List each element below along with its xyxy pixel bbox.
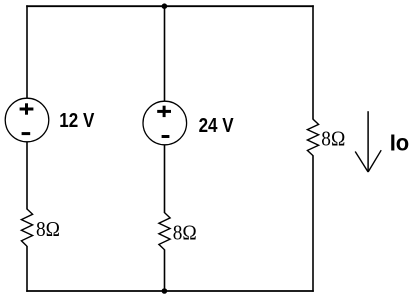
wire right branch top [312,5,314,119]
voltage source V2 circle [143,101,187,145]
wire left branch bottom [26,246,28,292]
V1 minus sign [22,132,31,135]
svg-text:12 V: 12 V [59,109,94,132]
wire middle branch bottom [164,249,166,291]
V2 minus sign [162,135,170,138]
junction node top [162,3,168,9]
wire right branch bottom [312,155,314,291]
wire left branch middle [26,142,28,210]
current arrow Io shaft [367,111,369,171]
voltage source V1 circle [5,98,49,142]
svg-text:Io: Io [390,130,410,156]
svg-text:8Ω: 8Ω [36,217,60,241]
resistor R2 zigzag [159,213,170,250]
resistor R1 zigzag [21,209,32,246]
current arrow Io barbs [355,152,368,173]
V2 plus sign [157,106,171,117]
svg-text:8Ω: 8Ω [173,220,197,244]
wire bottom horizontal [26,290,314,292]
wire middle branch middle [164,145,166,213]
resistor R3 zigzag [307,119,318,155]
wire top horizontal [26,5,314,7]
svg-text:8Ω: 8Ω [321,127,345,151]
wire left branch top [26,5,28,98]
junction node bottom [162,288,168,294]
V1 plus sign [20,103,34,114]
svg-text:24 V: 24 V [199,114,234,137]
wire middle branch top [164,5,166,101]
